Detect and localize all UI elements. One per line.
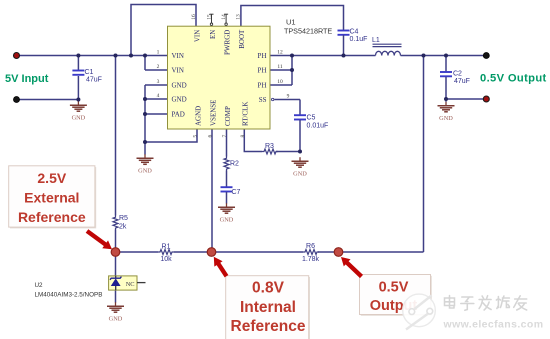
svg-text:GND: GND (293, 170, 307, 177)
svg-text:C1: C1 (85, 69, 94, 76)
svg-text:PWRGD: PWRGD (223, 30, 231, 55)
svg-text:0.5V Output: 0.5V Output (480, 73, 547, 85)
svg-text:Reference: Reference (18, 209, 86, 225)
svg-text:R6: R6 (306, 243, 315, 250)
svg-text:BOOT: BOOT (238, 29, 246, 49)
svg-text:VSENSE: VSENSE (209, 100, 217, 126)
svg-text:C5: C5 (307, 115, 316, 122)
svg-text:GND: GND (172, 96, 187, 104)
svg-text:12: 12 (277, 50, 283, 56)
svg-text:C2: C2 (453, 71, 462, 78)
svg-text:1: 1 (157, 50, 160, 56)
svg-text:16: 16 (191, 14, 197, 20)
svg-text:2.5V: 2.5V (37, 170, 66, 186)
svg-text:GND: GND (220, 216, 234, 223)
svg-text:10: 10 (277, 79, 283, 85)
svg-text:TPS54218RTE: TPS54218RTE (284, 27, 332, 36)
svg-text:VIN: VIN (193, 30, 201, 42)
svg-text:PH: PH (258, 66, 267, 74)
svg-text:LM4040AIM3-2.5/NOPB: LM4040AIM3-2.5/NOPB (35, 291, 103, 298)
svg-text:R2: R2 (230, 161, 239, 168)
svg-text:2k: 2k (119, 223, 127, 230)
svg-text:15: 15 (206, 14, 212, 20)
svg-text:0.01uF: 0.01uF (307, 122, 329, 129)
svg-text:PH: PH (258, 82, 267, 90)
svg-text:R5: R5 (119, 215, 128, 222)
svg-text:0.8V: 0.8V (252, 280, 285, 297)
svg-text:Internal: Internal (240, 299, 296, 316)
svg-text:L1: L1 (372, 37, 380, 44)
svg-text:R1: R1 (162, 244, 171, 251)
svg-text:RT/CLK: RT/CLK (242, 102, 250, 126)
svg-text:PH: PH (258, 52, 267, 60)
svg-text:13: 13 (236, 14, 242, 20)
svg-text:47uF: 47uF (454, 78, 470, 85)
svg-text:0.5V: 0.5V (379, 279, 409, 295)
svg-text:6: 6 (208, 135, 214, 138)
svg-text:11: 11 (277, 64, 283, 70)
svg-text:4: 4 (157, 93, 160, 99)
svg-text:Reference: Reference (231, 318, 306, 335)
svg-text:C7: C7 (232, 189, 241, 196)
svg-text:U2: U2 (35, 282, 44, 289)
svg-text:5: 5 (193, 135, 199, 138)
svg-text:GND: GND (439, 115, 453, 122)
svg-text:GND: GND (109, 315, 123, 322)
svg-text:U1: U1 (286, 18, 296, 27)
svg-text:47uF: 47uF (86, 76, 102, 83)
svg-text:2: 2 (157, 64, 160, 70)
svg-text:AGND: AGND (194, 106, 202, 126)
svg-text:PAD: PAD (172, 111, 185, 119)
svg-text:GND: GND (172, 82, 187, 90)
svg-text:VIN: VIN (172, 52, 184, 60)
svg-text:1.78k: 1.78k (302, 256, 320, 263)
svg-text:R3: R3 (265, 143, 274, 150)
svg-text:SS: SS (259, 96, 267, 104)
svg-text:0.1uF: 0.1uF (350, 36, 368, 43)
svg-text:8: 8 (240, 135, 246, 138)
svg-text:14: 14 (221, 14, 227, 20)
svg-text:EN: EN (209, 30, 217, 39)
svg-text:7: 7 (222, 135, 228, 138)
svg-text:C4: C4 (350, 29, 359, 36)
svg-text:3: 3 (157, 79, 160, 85)
svg-text:10k: 10k (160, 256, 172, 263)
svg-text:COMP: COMP (224, 106, 232, 126)
svg-text:VIN: VIN (172, 66, 184, 74)
svg-text:External: External (24, 190, 79, 206)
svg-text:NC: NC (126, 281, 135, 288)
svg-text:GND: GND (72, 114, 86, 121)
svg-text:9: 9 (287, 94, 290, 100)
svg-text:5V Input: 5V Input (5, 73, 49, 85)
svg-text:GND: GND (138, 168, 152, 175)
svg-text:www.elecfans.com: www.elecfans.com (443, 318, 544, 330)
